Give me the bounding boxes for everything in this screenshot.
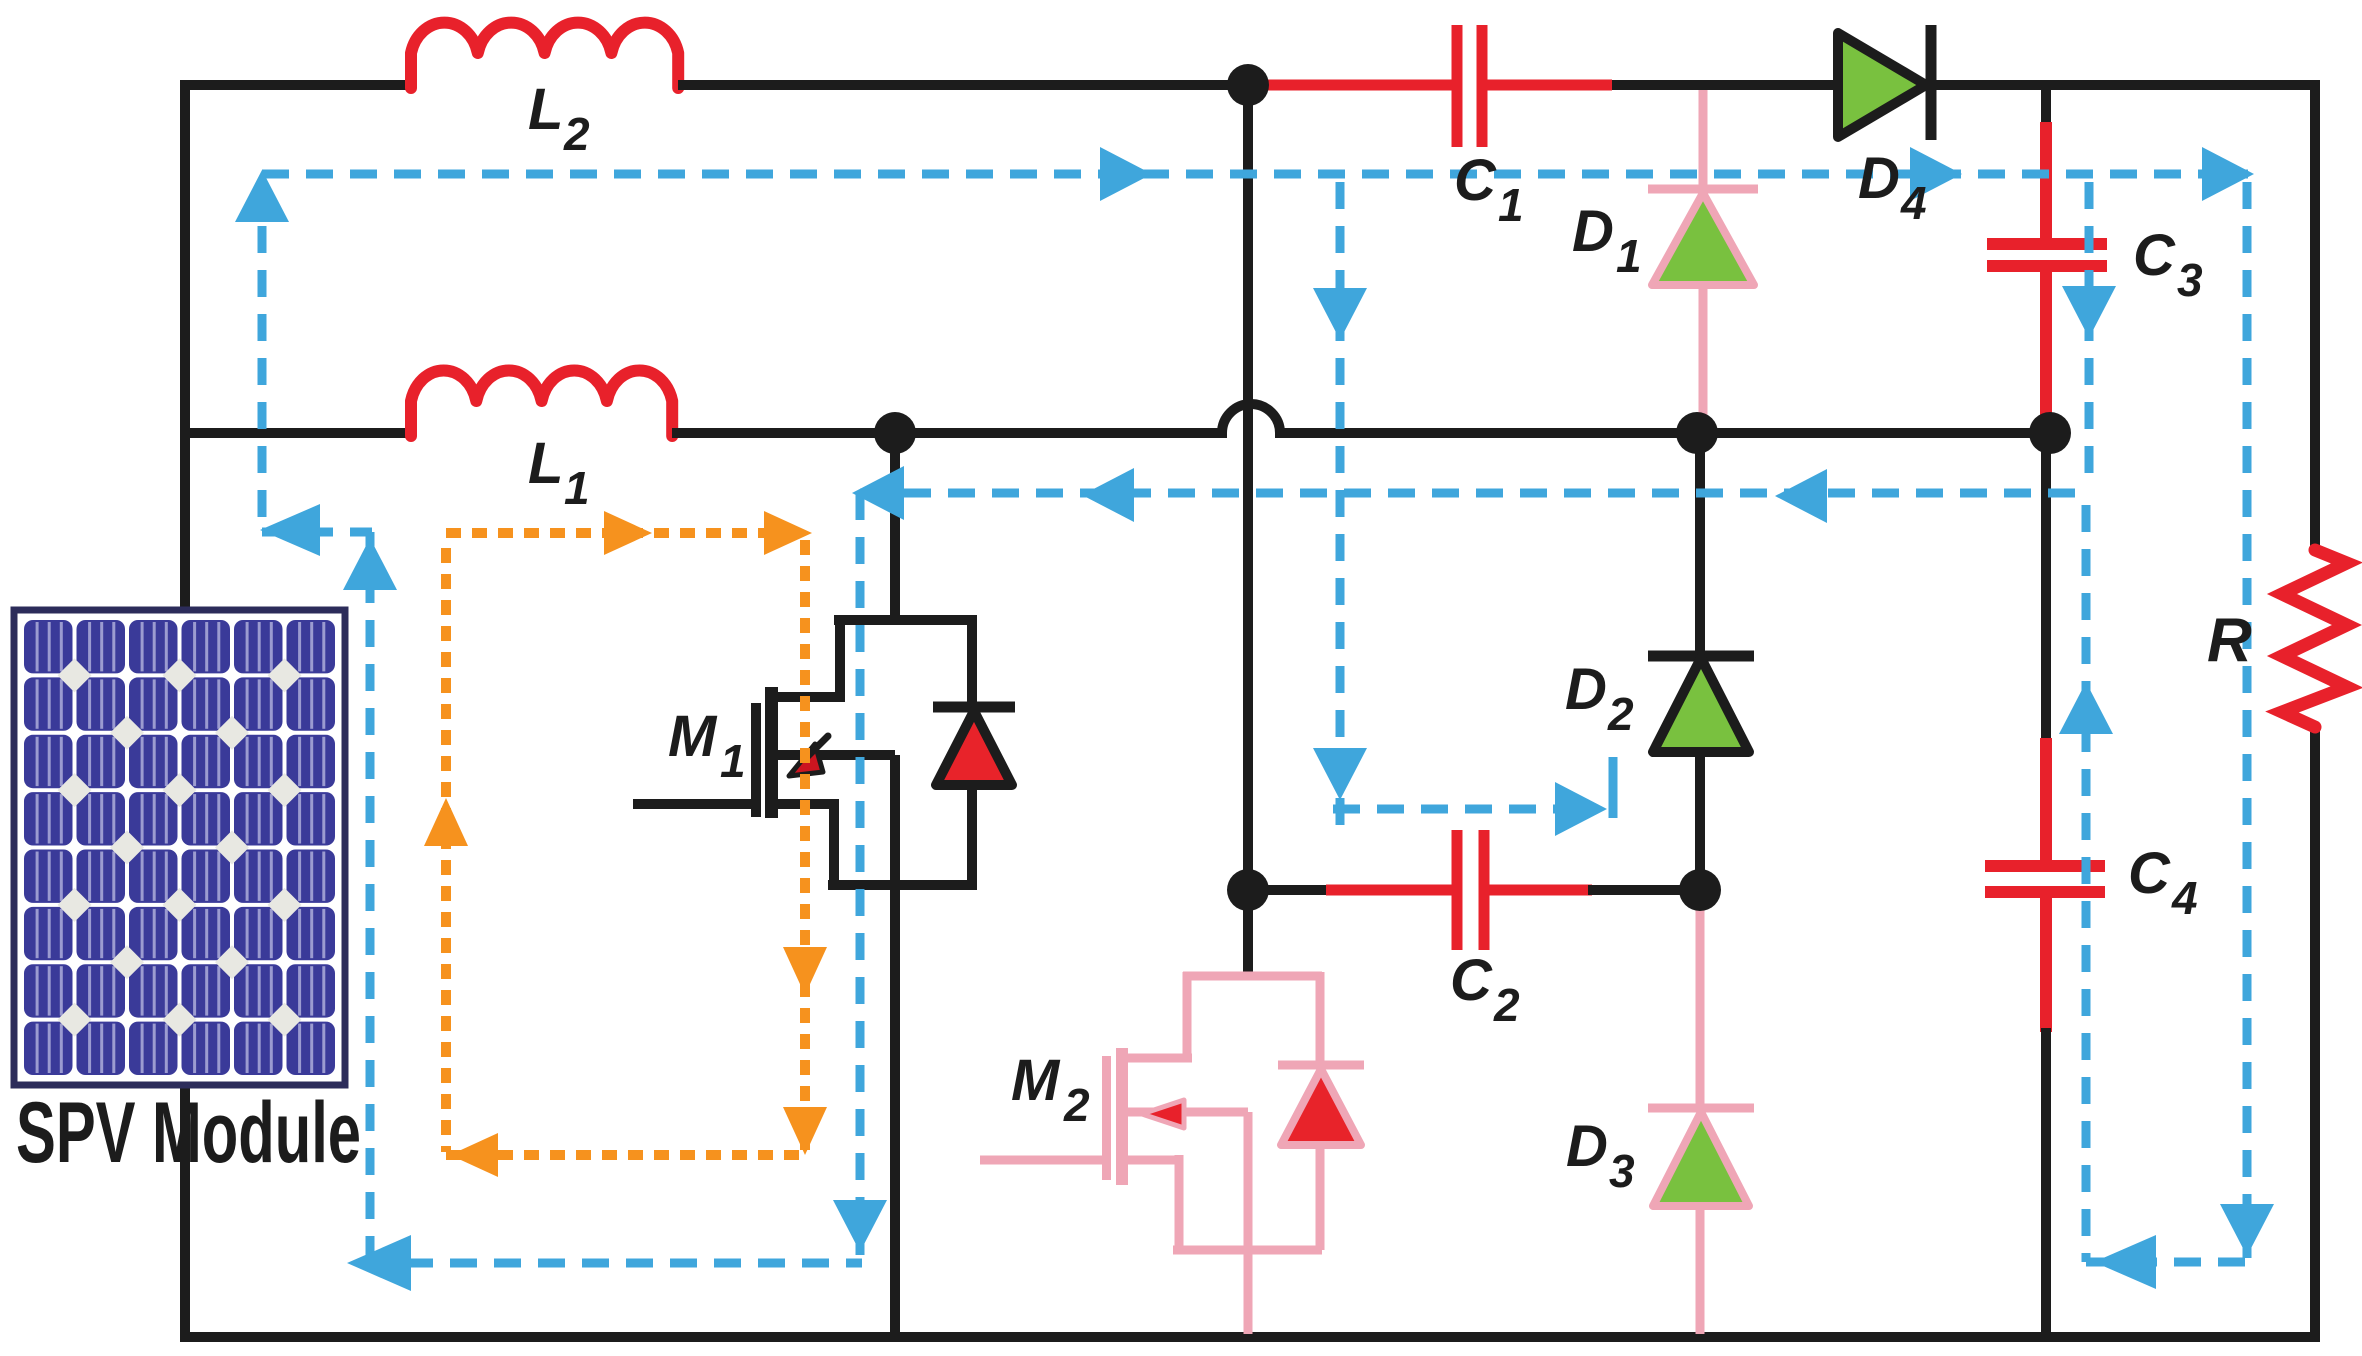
diode M2 body-diode anode lead <box>1316 1145 1325 1250</box>
capacitor C4 lower stub <box>2041 1028 2051 1337</box>
orange loop arrow right at top-right corner <box>764 511 812 555</box>
diode D4 cathode bar <box>1926 25 1937 140</box>
wire M2 drain stub <box>1243 890 1253 978</box>
blue loop arrow right toward D2 <box>1555 782 1607 836</box>
wire M2 source tail <box>1244 1250 1253 1334</box>
capacitor C4 lower lead <box>2040 896 2052 1032</box>
node C2 right junction (D2/D3) <box>1679 869 1721 911</box>
svg-text:2: 2 <box>1063 1079 1090 1131</box>
capacitor C4 upper lead <box>2040 738 2052 864</box>
svg-text:1: 1 <box>1498 179 1524 231</box>
svg-text:D: D <box>1858 146 1900 211</box>
blue loop small horizontal to D2 <box>1333 805 1596 814</box>
wire M1 drain branch <box>890 433 900 622</box>
blue loop C3 vertical <box>2085 182 2094 489</box>
blue loop arrow right at top-right corner <box>2202 147 2254 201</box>
capacitor C2 right stub <box>1588 885 1700 895</box>
diode M2 body-diode triangle <box>1281 1069 1361 1145</box>
blue loop right vertical <box>2243 182 2252 1258</box>
svg-text:L: L <box>528 77 563 142</box>
blue loop arrow left at bottom-left <box>347 1235 411 1291</box>
blue loop mid vertical (M1 side) <box>856 493 865 1255</box>
svg-text:D: D <box>1565 657 1607 722</box>
orange loop arrow right on top <box>604 511 652 555</box>
svg-text:D: D <box>1572 199 1614 264</box>
transistor M1 substrate arrow <box>789 744 823 776</box>
orange loop bottom horizontal <box>446 1150 805 1160</box>
blue loop left vertical <box>258 182 267 532</box>
svg-text:M: M <box>1011 1048 1061 1113</box>
blue loop arrow left at bottom-right <box>2094 1235 2156 1289</box>
wire left vertical (SPV branch) <box>180 81 190 1341</box>
svg-text:2: 2 <box>1493 979 1520 1031</box>
orange loop left vertical <box>441 548 451 1152</box>
blue loop arrow up on C4 vertical <box>2059 682 2113 734</box>
capacitor C3 top stub <box>2041 85 2051 127</box>
diode D1 triangle <box>1652 193 1754 285</box>
transistor M1 MOSFET body <box>834 615 974 625</box>
wire D2 cathode branch <box>1695 433 1705 658</box>
svg-text:C: C <box>1454 148 1497 213</box>
blue loop jog horizontal <box>262 528 372 537</box>
blue loop mid horizontal return <box>860 489 2089 498</box>
svg-text:C: C <box>2128 841 2171 906</box>
capacitor C3 plates <box>1987 238 2107 250</box>
wire right vertical upper (corner to R) <box>2310 80 2320 552</box>
blue loop arrow up on inner-left vertical <box>343 538 397 590</box>
svg-text:C: C <box>1450 948 1493 1013</box>
diode M2 body-diode cathode lead <box>1316 972 1325 1065</box>
orange loop arrow up on left vertical <box>424 798 468 846</box>
diode D3 cathode bar <box>1648 1104 1754 1113</box>
capacitor C1 left lead <box>1268 80 1452 91</box>
svg-text:M: M <box>668 704 718 769</box>
node top junction (L2/C1/center) <box>1227 64 1269 106</box>
capacitor C4 upper stub <box>2041 433 2051 742</box>
svg-text:D: D <box>1566 1114 1608 1179</box>
svg-text:C: C <box>2133 223 2176 288</box>
capacitor C2 left stub <box>1248 885 1330 895</box>
blue loop arrow left on jog <box>260 504 320 556</box>
diode M2 body-diode cathode bar <box>1278 1061 1364 1070</box>
blue loop arrow right after D4 <box>1910 147 1962 201</box>
blue loop C2/D2 vertical <box>1336 182 1345 826</box>
transistor M2 substrate arrow <box>1142 1100 1184 1128</box>
blue loop arrow up at top-left <box>235 170 289 222</box>
blue loop C4 vertical <box>2082 505 2091 1262</box>
node mid junction C3/C4 <box>2029 412 2071 454</box>
wire middle rail (L1 to hop) <box>672 404 2046 433</box>
blue loop arrow down above bottom-left corner <box>833 1200 887 1252</box>
blue loop arrow left on mid-horizontal b <box>1775 469 1827 523</box>
svg-text:4: 4 <box>1900 177 1927 229</box>
diode M1 body-diode anode lead <box>967 785 977 890</box>
diode M1 body-diode cathode bar <box>933 702 1015 713</box>
diode M1 body-diode triangle <box>936 711 1012 785</box>
orange loop right vertical <box>800 540 810 1150</box>
diode D3 upper lead <box>1696 890 1705 1108</box>
svg-text:1: 1 <box>564 462 590 514</box>
capacitor C2 right lead <box>1489 885 1592 896</box>
SPV module panel <box>14 610 345 1085</box>
blue loop tick at D2 branch <box>1609 757 1618 818</box>
svg-text:2: 2 <box>1607 688 1634 740</box>
capacitor C3 upper lead <box>2040 122 2052 240</box>
blue loop arrow down on C2 vertical lower <box>1313 748 1367 800</box>
blue loop inner-left vertical <box>366 532 375 1263</box>
node mid junction M1 drain <box>874 412 916 454</box>
svg-text:3: 3 <box>2177 254 2203 306</box>
inductor L2 <box>411 23 678 88</box>
blue loop bottom-right short horizontal <box>2086 1258 2247 1267</box>
orange loop arrow left on bottom <box>450 1133 498 1177</box>
svg-text:2: 2 <box>563 108 590 160</box>
blue loop top horizontal <box>262 170 2248 179</box>
svg-text:SPV Module: SPV Module <box>16 1085 361 1181</box>
resistor R <box>2282 550 2347 727</box>
transistor M2 MOSFET body <box>1183 972 1322 981</box>
capacitor C4 plates <box>1985 860 2105 872</box>
wire middle node rail left segment <box>180 428 411 438</box>
capacitor C1 right lead <box>1487 80 1612 91</box>
blue loop bottom-left horizontal <box>362 1259 862 1268</box>
inductor L1 <box>411 370 672 436</box>
blue loop arrow down on C3 vertical <box>2062 286 2116 338</box>
diode M1 body-diode cathode lead <box>967 615 977 707</box>
diode D1 upper lead <box>1699 90 1708 189</box>
svg-text:L: L <box>528 431 563 496</box>
blue loop arrow left at mid-horizontal start <box>852 466 904 520</box>
blue loop arrow right mid-top <box>1100 147 1152 201</box>
blue loop arrow left on mid-horizontal a <box>1082 468 1134 522</box>
blue loop arrow down on C2 vertical upper <box>1313 288 1367 340</box>
capacitor C2 plates <box>1452 830 1463 950</box>
diode D1 cathode bar <box>1648 185 1758 194</box>
orange loop top horizontal <box>446 528 806 538</box>
wire top rail left segment <box>180 80 411 90</box>
wire M1 source to bottom rail <box>890 883 900 1337</box>
svg-text:1: 1 <box>1616 230 1642 282</box>
diode D4 triangle <box>1838 33 1926 137</box>
capacitor C1 plates <box>1452 25 1463 147</box>
wire D2 anode to C2 node <box>1695 750 1705 892</box>
wire center vertical (top junction down to C2 node) <box>1243 85 1253 890</box>
wire D4 anode segment <box>1612 80 1840 90</box>
node mid junction D1/D2 <box>1676 412 1718 454</box>
wire bottom rail <box>180 1332 2320 1342</box>
node C2 left junction <box>1227 869 1269 911</box>
svg-text:4: 4 <box>2171 872 2198 924</box>
blue loop arrow down at right-bottom <box>2220 1204 2274 1256</box>
wire D4 cathode to corner <box>1931 80 2320 90</box>
diode D3 anode lead <box>1696 1206 1705 1334</box>
svg-text:1: 1 <box>720 735 746 787</box>
diode D2 triangle <box>1653 658 1749 752</box>
diode D3 triangle <box>1653 1112 1749 1206</box>
capacitor C2 left lead <box>1326 885 1452 896</box>
wire right vertical lower (R to corner) <box>2310 725 2320 1337</box>
svg-text:3: 3 <box>1609 1145 1635 1197</box>
capacitor C3 lower lead <box>2040 272 2052 425</box>
orange loop arrow down at bottom-right corner <box>783 1107 827 1155</box>
wire top rail middle segment (L2 to C1) <box>678 80 1330 90</box>
diode D1 anode lead <box>1699 285 1708 433</box>
svg-text:R: R <box>2207 606 2252 675</box>
diode D2 cathode bar <box>1648 651 1754 662</box>
orange loop arrow down on right vertical <box>783 947 827 995</box>
